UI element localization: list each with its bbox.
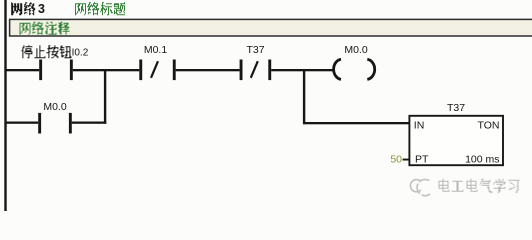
network header label "网络 3" bbox=[11, 2, 45, 16]
svg-text:3: 3 bbox=[38, 2, 45, 16]
svg-text:T37: T37 bbox=[246, 44, 264, 56]
contact T37 slash bbox=[251, 61, 258, 78]
wire timer branch horizontal bbox=[303, 122, 410, 124]
comment text "网络注释" bbox=[20, 22, 70, 35]
contact M0.1 bar 2 bbox=[173, 60, 176, 81]
contact T37 bar 2 bbox=[268, 60, 271, 81]
svg-text:M0.0: M0.0 bbox=[43, 101, 67, 113]
watermark logo circles bbox=[410, 179, 430, 195]
network title label "网络标题" bbox=[75, 2, 125, 15]
left power rail bbox=[4, 0, 6, 211]
contact I0.2 bar 2 bbox=[70, 60, 73, 81]
wire rung2 left segment bbox=[5, 122, 38, 124]
contact M0.0 bar 2 bbox=[69, 113, 72, 134]
contact I0.2 bar 1 bbox=[39, 60, 42, 81]
contact M0.0 bar 1 bbox=[38, 113, 41, 134]
wire rung1 segment 2 bbox=[73, 69, 140, 71]
svg-text:M0.1: M0.1 bbox=[144, 44, 168, 56]
svg-text:100 ms: 100 ms bbox=[465, 154, 499, 166]
comment bar box bbox=[10, 19, 532, 36]
svg-text:50: 50 bbox=[390, 154, 402, 166]
contact M0.1 slash bbox=[151, 61, 158, 78]
coil M0.0 right paren bbox=[367, 59, 374, 79]
wire rung1 segment 4 bbox=[271, 69, 333, 71]
svg-text:TON: TON bbox=[478, 119, 500, 131]
svg-text:T37: T37 bbox=[447, 102, 465, 114]
PT input tick bbox=[403, 159, 410, 161]
contact M0.1 bar 1 bbox=[139, 60, 142, 81]
svg-text::I0.2: :I0.2 bbox=[69, 47, 89, 58]
junction branch vertical (timer) bbox=[303, 69, 305, 124]
wire rung1 left segment bbox=[5, 69, 39, 71]
svg-text:PT: PT bbox=[415, 154, 429, 166]
wire rung2 right segment bbox=[72, 122, 107, 124]
svg-text:IN: IN bbox=[414, 119, 425, 131]
svg-text:M0.0: M0.0 bbox=[344, 44, 368, 56]
contact T37 bar 1 bbox=[240, 60, 243, 81]
label 停止按钮:I0.2 bbox=[21, 45, 88, 58]
wire rung1 segment 3 bbox=[176, 69, 240, 71]
watermark text 电工电气学习 bbox=[439, 179, 520, 193]
coil M0.0 left paren bbox=[334, 59, 341, 79]
timer box T37 TON bbox=[409, 116, 503, 165]
junction branch vertical (parallel M0.0) bbox=[104, 69, 106, 124]
